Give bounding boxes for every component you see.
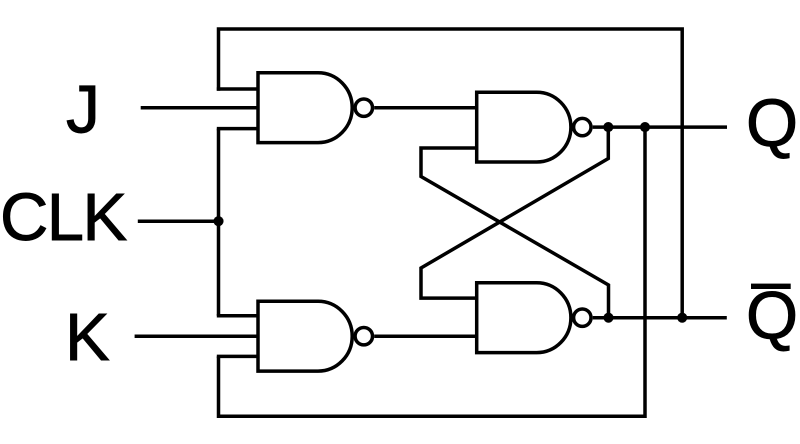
wire U1 input1 stub xyxy=(217,87,258,91)
svg-text:CLK: CLK xyxy=(0,180,126,255)
nand gate U4 xyxy=(477,283,571,353)
svg-text:Q: Q xyxy=(746,86,798,161)
wire CLK input xyxy=(138,219,219,223)
wire U2 input3 stub xyxy=(217,355,258,359)
wire cross-couple Q node to U4 input1 xyxy=(421,127,608,298)
bubble U2 xyxy=(355,328,372,345)
junction CLK node xyxy=(213,216,223,226)
wire CLK rail vertical xyxy=(217,129,221,316)
nand gate U3 xyxy=(477,92,571,162)
overbar of Qbar xyxy=(751,284,791,289)
wire Q output xyxy=(593,125,727,129)
wire K input xyxy=(135,334,258,338)
svg-text:Q: Q xyxy=(746,279,798,354)
wire U1 output to U3 input1 xyxy=(374,106,477,110)
wire Qbar output xyxy=(593,316,727,320)
nand gate U1 xyxy=(258,73,352,143)
wire J input xyxy=(141,106,258,110)
junction Q node 2 xyxy=(640,122,650,132)
wire U1 input3 stub xyxy=(217,127,258,131)
wire U2 output to U4 input2 xyxy=(374,334,477,338)
wire cross-couple Qbar node to U3 input2 xyxy=(421,148,609,318)
wire U2 input1 stub xyxy=(217,314,258,318)
junction Q node 1 xyxy=(603,122,613,132)
wire top feedback from Qbar node to U1 input1 xyxy=(219,29,683,318)
svg-text:K: K xyxy=(65,300,110,375)
wire bottom feedback from Q node to U2 input3 xyxy=(219,127,646,416)
bubble U3 xyxy=(574,118,591,135)
junction Qbar node 1 xyxy=(603,313,613,323)
bubble U1 xyxy=(355,99,372,116)
nand gate U2 xyxy=(258,301,352,371)
junction Qbar node 2 xyxy=(677,313,687,323)
svg-text:J: J xyxy=(66,72,100,148)
bubble U4 xyxy=(574,309,591,326)
